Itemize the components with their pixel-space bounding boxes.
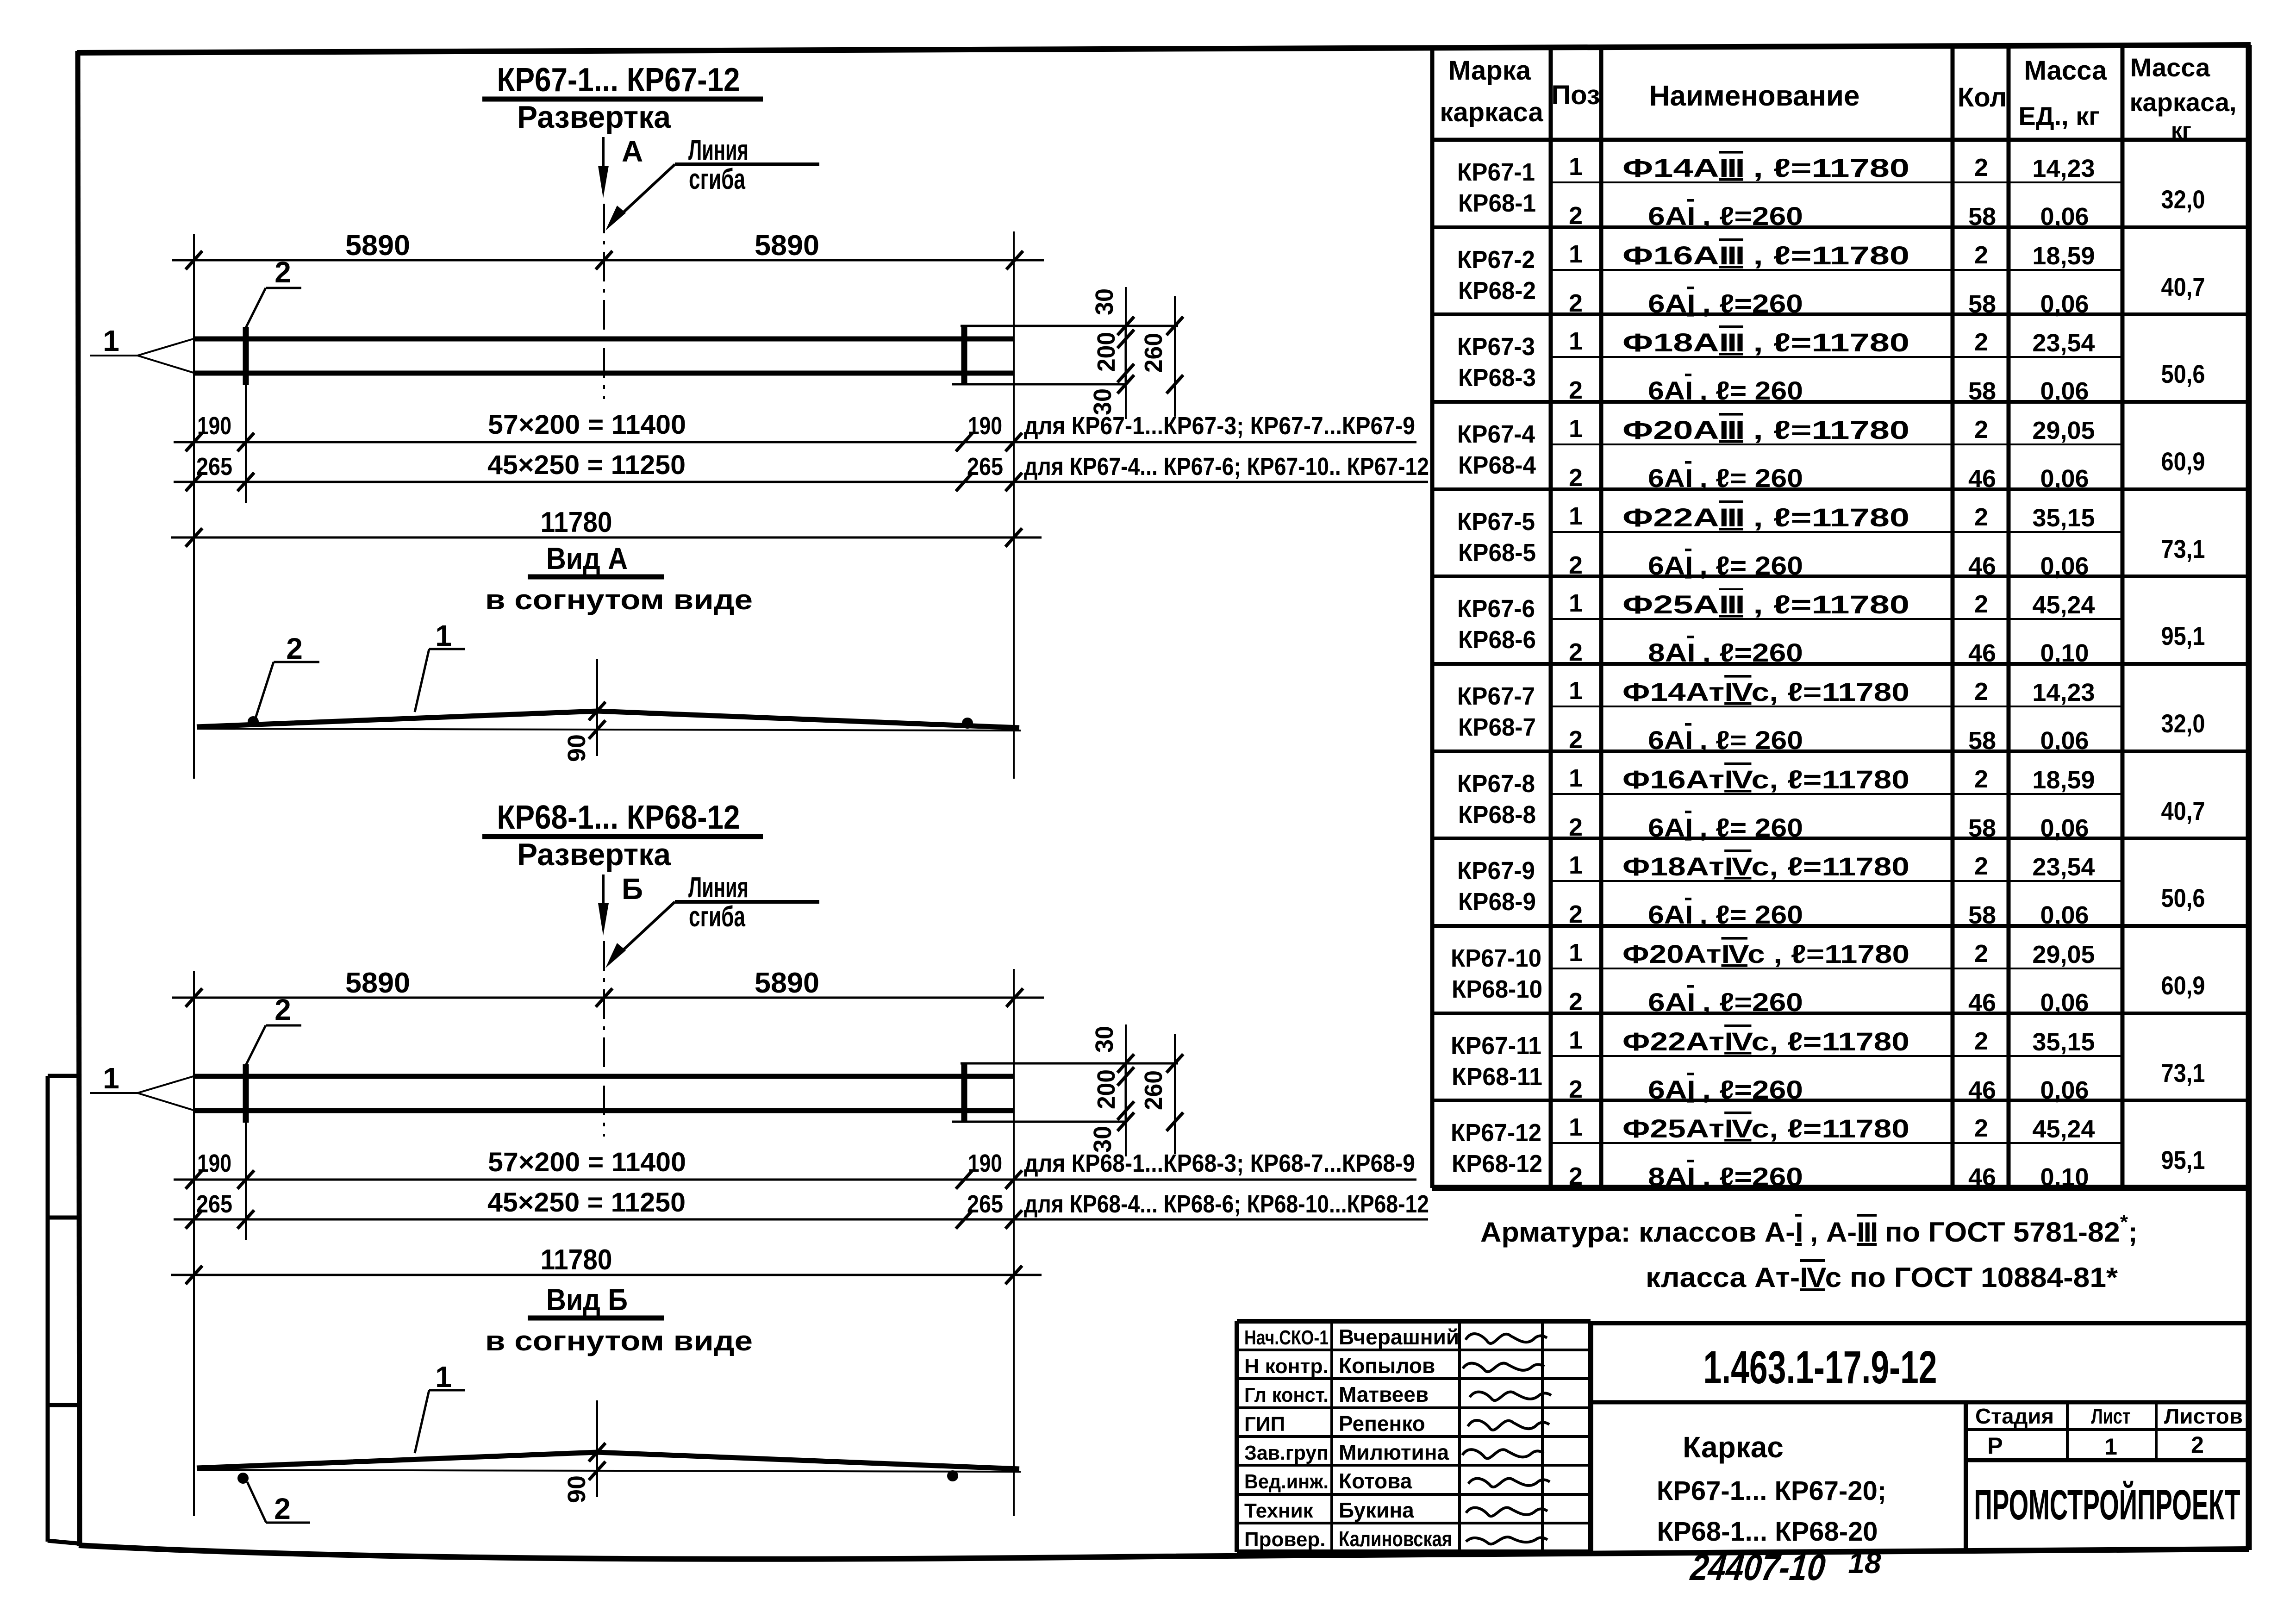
svg-text:73,1: 73,1 xyxy=(2161,1058,2205,1087)
svg-text:Техник: Техник xyxy=(1244,1499,1314,1522)
svg-text:в согнутом виде: в согнутом виде xyxy=(485,1325,753,1356)
svg-text:8АI , ℓ=260: 8АI , ℓ=260 xyxy=(1648,1162,1803,1191)
bent view spacer dot right xyxy=(947,1470,958,1481)
svg-text:2: 2 xyxy=(1974,1114,1988,1142)
svg-text:КР67-1... КР67-20;: КР67-1... КР67-20; xyxy=(1657,1476,1886,1506)
svg-text:2: 2 xyxy=(1974,328,1988,356)
svg-text:2: 2 xyxy=(1974,241,1988,269)
svg-text:265: 265 xyxy=(967,453,1003,481)
svg-text:Ф25АIII , ℓ=11780: Ф25АIII , ℓ=11780 xyxy=(1622,590,1909,619)
svg-text:Масса: Масса xyxy=(2024,56,2108,86)
svg-text:23,54: 23,54 xyxy=(2032,853,2095,881)
svg-text:5890: 5890 xyxy=(755,230,819,262)
svg-text:190: 190 xyxy=(197,1149,231,1177)
svg-text:Наименование: Наименование xyxy=(1649,80,1860,112)
svg-text:Стадия: Стадия xyxy=(1975,1404,2054,1428)
svg-text:5890: 5890 xyxy=(345,230,410,262)
leader shelf line xyxy=(675,900,819,904)
svg-text:45×250 = 11250: 45×250 = 11250 xyxy=(487,450,686,480)
svg-text:Ф20АIII , ℓ=11780: Ф20АIII , ℓ=11780 xyxy=(1622,415,1909,444)
svg-text:11780: 11780 xyxy=(541,506,612,538)
table header bottom line xyxy=(1432,138,2249,142)
svg-text:Копылов: Копылов xyxy=(1339,1354,1435,1378)
svg-text:18,59: 18,59 xyxy=(2032,766,2095,794)
view title underline xyxy=(528,1316,664,1321)
dim line 57x200=11400 row xyxy=(174,441,1416,443)
svg-text:каркаса: каркаса xyxy=(1440,97,1543,127)
svg-text:Ф16АтIVс, ℓ=11780: Ф16АтIVс, ℓ=11780 xyxy=(1622,765,1909,794)
table column divider 1 xyxy=(1549,46,1553,1188)
svg-text:Зав.груп: Зав.груп xyxy=(1244,1442,1329,1464)
chain dimension 30/200/30 xyxy=(1125,287,1127,419)
svg-text:КР68-1... КР68-20: КР68-1... КР68-20 xyxy=(1657,1517,1878,1547)
svg-text:ЕД., кг: ЕД., кг xyxy=(2018,101,2099,131)
svg-text:0,10: 0,10 xyxy=(2040,1163,2089,1191)
svg-text:КР68-2: КР68-2 xyxy=(1458,277,1536,305)
spacer pos.2 right xyxy=(961,327,967,385)
svg-text:1.463.1-17.9-12: 1.463.1-17.9-12 xyxy=(1703,1342,1937,1393)
svg-text:КР67-8: КР67-8 xyxy=(1457,770,1535,798)
table group КР67-8/КР68-8 xyxy=(1432,750,2249,753)
svg-text:2: 2 xyxy=(1569,1162,1583,1190)
svg-text:КР68-11: КР68-11 xyxy=(1452,1063,1542,1091)
svg-text:2: 2 xyxy=(1974,1027,1988,1055)
svg-text:265: 265 xyxy=(196,1190,232,1218)
svg-text:2: 2 xyxy=(1974,852,1988,880)
svg-text:57×200 = 11400: 57×200 = 11400 xyxy=(488,1147,686,1177)
leader for position 2 xyxy=(266,1024,301,1027)
svg-text:90: 90 xyxy=(563,734,591,762)
extension below left spacer xyxy=(245,1123,247,1240)
svg-text:Б: Б xyxy=(622,872,643,906)
title underline xyxy=(482,834,763,839)
sheet frame top edge xyxy=(77,45,2251,53)
table group КР67-3/КР68-3 xyxy=(1432,312,2249,316)
svg-text:КР67-5: КР67-5 xyxy=(1457,508,1535,536)
development outline top xyxy=(961,1062,1178,1065)
svg-text:1: 1 xyxy=(1569,153,1583,181)
leader arrow to fold line xyxy=(615,164,675,220)
svg-text:КР68-4: КР68-4 xyxy=(1458,451,1536,479)
svg-text:Ф22АтIVс, ℓ=11780: Ф22АтIVс, ℓ=11780 xyxy=(1622,1027,1909,1056)
svg-text:сгиба: сгиба xyxy=(689,901,745,933)
svg-text:190: 190 xyxy=(197,412,231,440)
svg-text:190: 190 xyxy=(968,412,1002,440)
chain dimension 30/200/30 xyxy=(1125,1024,1127,1156)
sheet frame right edge xyxy=(2246,45,2252,1550)
title block top edge xyxy=(1591,1321,2249,1325)
svg-text:КР67-4: КР67-4 xyxy=(1457,420,1535,448)
bent view chord line xyxy=(197,729,1021,731)
table column divider 3 xyxy=(1951,46,1955,1188)
svg-text:200: 200 xyxy=(1092,1069,1120,1109)
svg-text:32,0: 32,0 xyxy=(2161,709,2205,738)
extension line left xyxy=(193,234,195,779)
table group КР67-9/КР68-9 xyxy=(1432,837,2249,840)
стадия/лист/листов grid xyxy=(1966,1428,2249,1431)
svg-text:Котова: Котова xyxy=(1339,1469,1412,1493)
svg-text:60,9: 60,9 xyxy=(2161,447,2205,476)
svg-text:2: 2 xyxy=(275,993,291,1026)
svg-text:Н контр.: Н контр. xyxy=(1244,1355,1329,1378)
svg-text:1: 1 xyxy=(1569,415,1583,443)
svg-text:30: 30 xyxy=(1091,1026,1118,1053)
svg-text:90: 90 xyxy=(563,1475,591,1503)
table group КР67-11/КР68-11 xyxy=(1432,1012,2249,1015)
svg-text:Линия: Линия xyxy=(688,134,749,166)
svg-text:260: 260 xyxy=(1140,1070,1167,1110)
bent view bar pos.1 xyxy=(197,1452,1019,1469)
spacer pos.2 left xyxy=(243,1064,249,1123)
svg-text:265: 265 xyxy=(196,453,232,481)
apex vertical for dim 90 xyxy=(596,659,598,756)
svg-text:КР68-3: КР68-3 xyxy=(1458,364,1536,392)
svg-text:14,23: 14,23 xyxy=(2032,679,2095,706)
svg-text:КР68-10: КР68-10 xyxy=(1452,975,1542,1003)
svg-text:КР68-9: КР68-9 xyxy=(1458,888,1536,916)
fold centre line xyxy=(603,204,605,399)
extension below left spacer xyxy=(245,385,247,503)
view direction arrow Б xyxy=(602,874,605,907)
bent view bar pos.1 xyxy=(197,711,1019,728)
extension line right xyxy=(1013,969,1015,1516)
svg-text:КР68-1: КР68-1 xyxy=(1458,189,1536,217)
rebar pos.1 bottom bar xyxy=(195,371,1014,376)
svg-text:45×250 = 11250: 45×250 = 11250 xyxy=(487,1187,686,1218)
svg-text:50,6: 50,6 xyxy=(2161,359,2205,388)
svg-text:29,05: 29,05 xyxy=(2032,941,2095,968)
table group КР67-12/КР68-12 xyxy=(1432,1099,2249,1102)
svg-text:1: 1 xyxy=(103,1062,119,1095)
extension line left xyxy=(193,971,195,1516)
svg-text:Развертка: Развертка xyxy=(517,837,671,872)
table group КР67-1/КР68-1 xyxy=(1551,181,2122,183)
specification table outer borders xyxy=(1430,46,1435,1188)
svg-text:2: 2 xyxy=(1974,503,1988,531)
svg-text:Вчерашний: Вчерашний xyxy=(1339,1325,1459,1349)
svg-text:Калиновская: Калиновская xyxy=(1339,1527,1452,1551)
svg-text:класса Ат-IVс по ГОСТ 10884-: класса Ат-IVс по ГОСТ 10884-81* xyxy=(1646,1262,2118,1293)
svg-text:1: 1 xyxy=(1569,851,1583,879)
svg-text:60,9: 60,9 xyxy=(2161,971,2205,1000)
svg-text:30: 30 xyxy=(1091,288,1118,315)
svg-text:Провер.: Провер. xyxy=(1244,1528,1325,1551)
svg-text:Милютина: Милютина xyxy=(1339,1440,1449,1464)
view direction arrow А xyxy=(602,137,605,169)
fold centre line xyxy=(603,941,605,1137)
svg-text:29,05: 29,05 xyxy=(2032,417,2095,444)
svg-text:для КР67-4... КР67-6; КР67-10.: для КР67-4... КР67-6; КР67-10.. КР67-12 xyxy=(1024,453,1429,481)
svg-text:КР67-1: КР67-1 xyxy=(1457,158,1535,186)
dimension line 5890+5890 xyxy=(172,259,1044,262)
svg-text:для КР67-1...КР67-3; КР67-7...: для КР67-1...КР67-3; КР67-7...КР67-9 xyxy=(1024,412,1415,440)
leader for position 2 xyxy=(266,287,301,289)
svg-text:КР68-1... КР68-12: КР68-1... КР68-12 xyxy=(497,799,740,836)
rebar pos.1 top bar xyxy=(195,337,1014,342)
rebar pos.1 bottom bar xyxy=(195,1108,1014,1113)
svg-text:40,7: 40,7 xyxy=(2161,272,2205,301)
svg-text:А: А xyxy=(622,135,643,168)
svg-text:46: 46 xyxy=(1968,1163,1996,1191)
svg-text:265: 265 xyxy=(967,1190,1003,1218)
svg-text:КР67-11: КР67-11 xyxy=(1451,1032,1541,1060)
svg-text:190: 190 xyxy=(968,1149,1002,1177)
svg-text:24407-10: 24407-10 xyxy=(1688,1546,1828,1588)
svg-text:1: 1 xyxy=(435,1360,452,1393)
svg-text:2: 2 xyxy=(275,256,291,289)
svg-text:30: 30 xyxy=(1089,1126,1117,1153)
development outline right edge xyxy=(1125,1063,1127,1122)
svg-text:Листов: Листов xyxy=(2164,1404,2243,1428)
svg-text:73,1: 73,1 xyxy=(2161,534,2205,563)
development outline top xyxy=(961,325,1178,327)
svg-text:Кол: Кол xyxy=(1958,82,2007,112)
view title underline xyxy=(528,575,664,580)
svg-text:1: 1 xyxy=(1569,1113,1583,1141)
signature table column divider xyxy=(1330,1321,1333,1552)
dim line 57x200=11400 row xyxy=(174,1179,1416,1181)
svg-text:в согнутом виде: в согнутом виде xyxy=(485,584,753,615)
svg-text:18,59: 18,59 xyxy=(2032,242,2095,270)
svg-text:2: 2 xyxy=(1974,678,1988,706)
divider under document number xyxy=(1591,1400,2249,1405)
divider Каркас / Стадия xyxy=(1964,1402,1968,1549)
sheet frame left edge xyxy=(78,51,80,1546)
table column divider 4 xyxy=(2007,46,2011,1188)
svg-text:Марка: Марка xyxy=(1448,56,1531,86)
extension line right xyxy=(1013,231,1015,779)
svg-text:1: 1 xyxy=(2104,1434,2117,1460)
svg-text:260: 260 xyxy=(1140,333,1167,373)
svg-text:Вед.инж.: Вед.инж. xyxy=(1244,1470,1329,1493)
svg-text:1: 1 xyxy=(1569,502,1583,530)
svg-text:2: 2 xyxy=(1974,590,1988,618)
svg-text:Ф16АIII , ℓ=11780: Ф16АIII , ℓ=11780 xyxy=(1622,241,1909,270)
svg-text:1: 1 xyxy=(1569,939,1583,967)
leader for position 1 xyxy=(90,1092,137,1094)
svg-text:45,24: 45,24 xyxy=(2032,591,2095,619)
svg-text:КР68-7: КР68-7 xyxy=(1458,713,1536,741)
svg-text:1: 1 xyxy=(1569,677,1583,705)
svg-text:2: 2 xyxy=(2191,1432,2204,1458)
svg-text:Ф14АтIVс, ℓ=11780: Ф14АтIVс, ℓ=11780 xyxy=(1622,677,1909,706)
svg-text:23,54: 23,54 xyxy=(2032,329,2095,357)
svg-text:2: 2 xyxy=(274,1492,291,1525)
dimension line 11780 xyxy=(171,537,1042,539)
title underline xyxy=(482,97,763,102)
svg-text:Матвеев: Матвеев xyxy=(1339,1382,1429,1406)
svg-text:40,7: 40,7 xyxy=(2161,796,2205,825)
svg-text:11780: 11780 xyxy=(541,1244,612,1276)
dimension 260 xyxy=(1174,296,1176,417)
bent view spacer dot left xyxy=(237,1473,249,1484)
svg-text:Вид Б: Вид Б xyxy=(546,1282,628,1317)
table column divider 2 xyxy=(1599,46,1603,1188)
signature table column divider xyxy=(1541,1321,1544,1552)
svg-text:35,15: 35,15 xyxy=(2032,504,2095,532)
svg-text:Ф18АIII , ℓ=11780: Ф18АIII , ℓ=11780 xyxy=(1622,328,1909,357)
svg-text:32,0: 32,0 xyxy=(2161,185,2205,214)
development outline right edge xyxy=(1125,326,1127,384)
spacer pos.2 left xyxy=(243,327,249,385)
svg-text:Каркас: Каркас xyxy=(1683,1430,1784,1464)
svg-text:КР68-6: КР68-6 xyxy=(1458,626,1536,654)
spacer pos.2 right xyxy=(961,1064,967,1123)
rebar pos.1 top bar xyxy=(195,1074,1014,1079)
svg-text:1: 1 xyxy=(103,324,119,357)
table group КР67-10/КР68-10 xyxy=(1432,924,2249,928)
svg-text:КР68-5: КР68-5 xyxy=(1458,539,1536,567)
svg-text:сгиба: сгиба xyxy=(689,163,745,195)
svg-text:2: 2 xyxy=(1974,765,1988,793)
svg-text:Поз: Поз xyxy=(1551,80,1600,110)
svg-text:2: 2 xyxy=(1974,416,1988,443)
svg-text:95,1: 95,1 xyxy=(2161,621,2205,650)
svg-text:35,15: 35,15 xyxy=(2032,1028,2095,1056)
svg-text:Ф14АIII , ℓ=11780: Ф14АIII , ℓ=11780 xyxy=(1622,153,1909,182)
svg-text:18: 18 xyxy=(1848,1546,1881,1580)
svg-text:Масса: Масса xyxy=(2130,53,2210,82)
svg-text:2: 2 xyxy=(286,632,303,665)
svg-text:КР67-1... КР67-12: КР67-1... КР67-12 xyxy=(497,62,740,99)
svg-text:1: 1 xyxy=(1569,589,1583,617)
svg-text:200: 200 xyxy=(1092,332,1120,372)
svg-text:Ф20АтIVс , ℓ=11780: Ф20АтIVс , ℓ=11780 xyxy=(1622,939,1909,968)
svg-text:2: 2 xyxy=(1974,940,1988,968)
bent view spacer dot left xyxy=(248,716,259,727)
svg-text:для КР68-1...КР68-3; КР68-7...: для КР68-1...КР68-3; КР68-7...КР68-9 xyxy=(1024,1149,1415,1177)
svg-text:Развертка: Развертка xyxy=(517,100,671,135)
svg-text:КР67-2: КР67-2 xyxy=(1457,246,1535,274)
svg-text:2: 2 xyxy=(1974,154,1988,181)
apex vertical for dim 90 xyxy=(596,1400,598,1497)
svg-text:Гл конст.: Гл конст. xyxy=(1244,1384,1329,1406)
svg-text:КР67-10: КР67-10 xyxy=(1451,944,1541,972)
svg-text:1: 1 xyxy=(1569,1026,1583,1054)
table group КР67-7/КР68-7 xyxy=(1432,662,2249,666)
dim line 45x250=11250 row xyxy=(174,1218,1428,1221)
leader shelf line xyxy=(675,162,819,166)
leader for position 1 xyxy=(90,355,137,356)
svg-text:14,23: 14,23 xyxy=(2032,155,2095,182)
bent view spacer dot right xyxy=(962,718,973,729)
dim line 45x250=11250 row xyxy=(174,481,1428,483)
svg-text:Арматура: классов А-I , А-I: Арматура: классов А-I , А-III по ГОСТ 57… xyxy=(1480,1211,2138,1248)
fold marks on left sheet edge xyxy=(48,1076,78,1543)
svg-text:кг: кг xyxy=(2171,119,2191,143)
svg-text:Ф18АтIVс, ℓ=11780: Ф18АтIVс, ℓ=11780 xyxy=(1622,852,1909,881)
svg-text:КР67-9: КР67-9 xyxy=(1457,857,1535,885)
svg-text:для КР68-4... КР68-6; КР68-10.: для КР68-4... КР68-6; КР68-10...КР68-12 xyxy=(1024,1190,1429,1218)
dimension line 5890+5890 xyxy=(172,997,1044,999)
svg-text:КР68-12: КР68-12 xyxy=(1452,1150,1542,1178)
svg-text:Нач.СКО-1: Нач.СКО-1 xyxy=(1244,1326,1329,1349)
svg-text:1: 1 xyxy=(1569,327,1583,355)
svg-text:КР67-12: КР67-12 xyxy=(1451,1119,1541,1147)
svg-text:Ф25АтIVс, ℓ=11780: Ф25АтIVс, ℓ=11780 xyxy=(1622,1114,1909,1143)
dimension 260 xyxy=(1174,1034,1176,1154)
svg-text:Линия: Линия xyxy=(688,872,749,904)
svg-text:50,6: 50,6 xyxy=(2161,883,2205,912)
svg-text:5890: 5890 xyxy=(345,967,410,999)
table group КР67-5/КР68-5 xyxy=(1432,487,2249,491)
svg-text:Букина: Букина xyxy=(1339,1498,1414,1522)
svg-text:Р: Р xyxy=(1987,1433,2003,1459)
svg-text:1: 1 xyxy=(1569,764,1583,792)
table group КР67-2/КР68-2 xyxy=(1432,225,2249,229)
svg-text:каркаса,: каркаса, xyxy=(2129,87,2236,117)
signature table column divider xyxy=(1458,1321,1461,1552)
development outline bottom xyxy=(952,383,1126,386)
leader arrow to fold line xyxy=(615,902,675,958)
svg-text:1: 1 xyxy=(1569,240,1583,268)
svg-text:ПРОМСТРОЙПРОЕКТ: ПРОМСТРОЙПРОЕКТ xyxy=(1974,1480,2240,1529)
svg-text:КР67-3: КР67-3 xyxy=(1457,333,1535,361)
development outline bottom xyxy=(952,1121,1126,1123)
sheet frame bottom edge xyxy=(79,1545,2249,1559)
svg-text:57×200 = 11400: 57×200 = 11400 xyxy=(488,410,686,440)
svg-text:45,24: 45,24 xyxy=(2032,1115,2095,1143)
svg-text:КР68-8: КР68-8 xyxy=(1458,801,1536,829)
svg-text:Вид А: Вид А xyxy=(546,541,628,575)
table column divider 5 xyxy=(2121,46,2125,1188)
svg-text:Репенко: Репенко xyxy=(1339,1412,1425,1436)
svg-text:Ф22АIII , ℓ=11780: Ф22АIII , ℓ=11780 xyxy=(1622,503,1909,532)
svg-text:5890: 5890 xyxy=(755,967,819,999)
svg-text:КР67-6: КР67-6 xyxy=(1457,595,1535,623)
svg-text:95,1: 95,1 xyxy=(2161,1145,2205,1174)
title block signature table xyxy=(1237,1319,1591,1324)
svg-text:30: 30 xyxy=(1089,388,1117,415)
bent view chord line xyxy=(197,1470,1021,1472)
table group КР67-6/КР68-6 xyxy=(1432,575,2249,578)
table group КР67-4/КР68-4 xyxy=(1432,400,2249,404)
svg-text:ГИП: ГИП xyxy=(1244,1413,1285,1436)
svg-text:КР67-7: КР67-7 xyxy=(1457,682,1535,710)
svg-text:Лист: Лист xyxy=(2091,1404,2131,1428)
dimension line 11780 xyxy=(171,1274,1042,1276)
svg-text:1: 1 xyxy=(435,619,452,652)
